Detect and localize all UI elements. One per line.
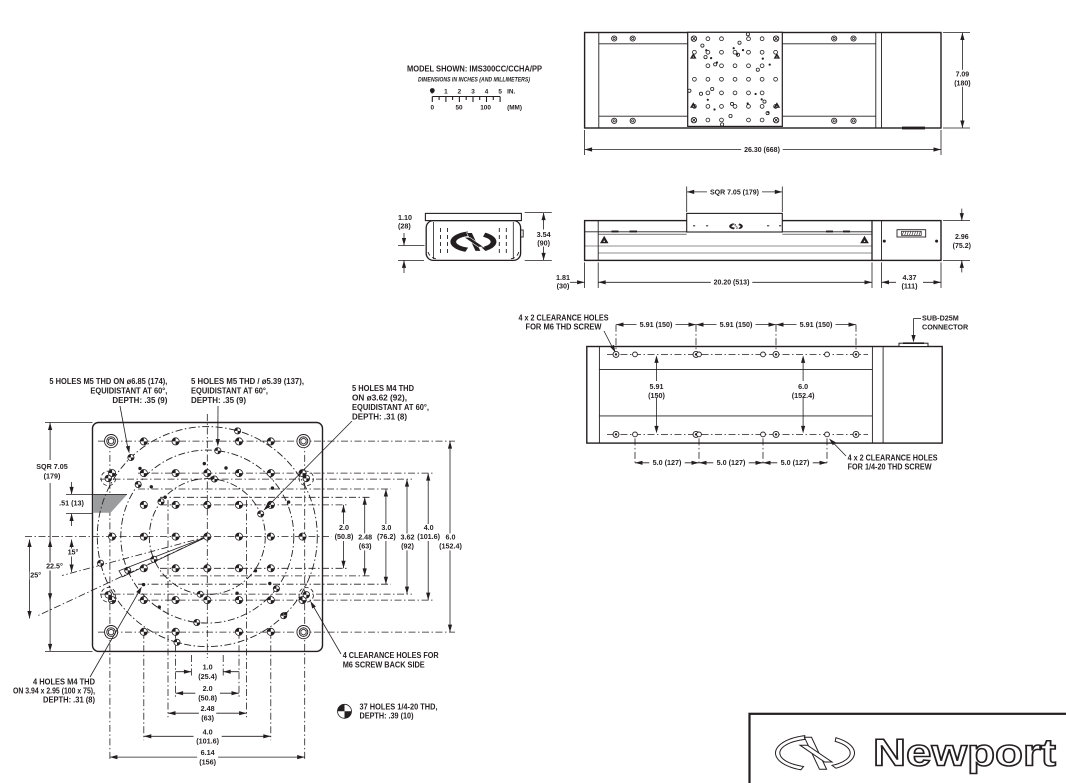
svg-text:(92): (92) [401, 542, 414, 551]
svg-text:15°: 15° [68, 548, 79, 557]
svg-text:2.0: 2.0 [203, 684, 213, 693]
svg-text:4 HOLES M4 THD: 4 HOLES M4 THD [33, 678, 95, 687]
svg-text:FOR 1/4-20 THD SCREW: FOR 1/4-20 THD SCREW [848, 462, 933, 471]
svg-text:(MM): (MM) [507, 105, 522, 112]
svg-text:2.48: 2.48 [201, 704, 215, 713]
svg-text:(50.8): (50.8) [198, 693, 217, 702]
svg-text:5.91 (150): 5.91 (150) [720, 320, 753, 329]
svg-text:(150): (150) [648, 391, 665, 400]
svg-text:6.0: 6.0 [446, 532, 456, 541]
svg-text:(179): (179) [44, 471, 61, 480]
svg-text:4.0: 4.0 [424, 523, 434, 532]
svg-text:SQR 7.05 (179): SQR 7.05 (179) [710, 189, 759, 196]
svg-text:5.91: 5.91 [650, 382, 664, 391]
svg-text:(25.4): (25.4) [198, 672, 217, 681]
svg-text:(63): (63) [359, 542, 372, 551]
svg-text:(30): (30) [557, 281, 570, 290]
svg-text:SUB-D25M: SUB-D25M [922, 314, 959, 323]
svg-text:3.0: 3.0 [381, 523, 391, 532]
svg-text:DIMENSIONS IN INCHES (AND MILL: DIMENSIONS IN INCHES (AND MILLIMETERS) [418, 77, 530, 84]
svg-text:2.96: 2.96 [955, 234, 969, 241]
svg-text:(90): (90) [537, 238, 550, 247]
svg-text:4 CLEARANCE HOLES FOR: 4 CLEARANCE HOLES FOR [343, 651, 439, 660]
svg-text:4 x 2 CLEARANCE HOLES: 4 x 2 CLEARANCE HOLES [519, 314, 609, 323]
svg-text:6.0: 6.0 [798, 382, 808, 391]
svg-text:M6 SCREW BACK SIDE: M6 SCREW BACK SIDE [343, 661, 425, 670]
svg-text:20.20 (513): 20.20 (513) [714, 280, 750, 287]
svg-text:7.09: 7.09 [956, 72, 970, 79]
svg-text:ON ø3.62 (92),: ON ø3.62 (92), [352, 394, 407, 403]
svg-text:1.0: 1.0 [203, 663, 213, 672]
svg-text:(156): (156) [199, 757, 216, 766]
svg-text:4.0: 4.0 [203, 727, 213, 736]
svg-text:(152.4): (152.4) [439, 542, 462, 551]
svg-text:(152.4): (152.4) [792, 391, 815, 400]
svg-text:22.5°: 22.5° [46, 562, 63, 571]
svg-text:5 HOLES M5 THD ON ø6.85 (174),: 5 HOLES M5 THD ON ø6.85 (174), [49, 377, 167, 386]
svg-text:5 HOLES M5 THD / ø5.39 (137),: 5 HOLES M5 THD / ø5.39 (137), [191, 377, 304, 386]
svg-text:(111): (111) [902, 282, 919, 291]
svg-text:5: 5 [498, 89, 502, 96]
svg-text:2: 2 [458, 89, 462, 96]
svg-text:(101.6): (101.6) [417, 532, 440, 541]
svg-text:5.91 (150): 5.91 (150) [640, 320, 673, 329]
svg-text:3.62: 3.62 [401, 532, 415, 541]
svg-text:IN.: IN. [507, 89, 515, 96]
svg-text:6.14: 6.14 [201, 748, 215, 757]
svg-text:(63): (63) [201, 713, 214, 722]
svg-text:(180): (180) [954, 81, 970, 88]
svg-text:(76.2): (76.2) [377, 532, 396, 541]
svg-text:EQUIDISTANT AT 60°,: EQUIDISTANT AT 60°, [352, 403, 429, 412]
svg-text:FOR M6 THD SCREW: FOR M6 THD SCREW [526, 323, 603, 332]
svg-text:(75.2): (75.2) [953, 243, 971, 250]
svg-text:5.0 (127): 5.0 (127) [781, 458, 810, 467]
svg-text:37 HOLES 1/4-20 THD,: 37 HOLES 1/4-20 THD, [360, 703, 438, 712]
svg-text:5.0 (127): 5.0 (127) [653, 458, 682, 467]
svg-text:ON 3.94 x 2.95 (100 x 75),: ON 3.94 x 2.95 (100 x 75), [13, 687, 95, 696]
svg-text:4: 4 [485, 89, 489, 96]
svg-text:2.48: 2.48 [358, 532, 372, 541]
svg-text:(101.6): (101.6) [196, 737, 219, 746]
svg-text:5.91 (150): 5.91 (150) [800, 320, 833, 329]
svg-text:4 x 2 CLEARANCE HOLES: 4 x 2 CLEARANCE HOLES [848, 453, 938, 462]
svg-text:26.30 (668): 26.30 (668) [744, 147, 780, 154]
svg-text:(50.8): (50.8) [335, 532, 354, 541]
svg-text:5.0 (127): 5.0 (127) [717, 458, 746, 467]
svg-text:(28): (28) [398, 221, 411, 230]
svg-text:EQUIDISTANT AT 60°,: EQUIDISTANT AT 60°, [90, 387, 167, 396]
svg-text:DEPTH: .31 (8): DEPTH: .31 (8) [352, 413, 407, 422]
svg-text:DEPTH: .39 (10): DEPTH: .39 (10) [360, 711, 414, 720]
svg-text:5 HOLES M4 THD: 5 HOLES M4 THD [352, 384, 414, 393]
svg-text:0: 0 [431, 105, 435, 112]
svg-text:2.0: 2.0 [339, 523, 349, 532]
svg-text:Newport: Newport [873, 733, 1056, 775]
svg-text:25°: 25° [30, 571, 41, 580]
svg-text:DEPTH: .35 (9): DEPTH: .35 (9) [191, 396, 246, 405]
svg-text:CONNECTOR: CONNECTOR [922, 323, 969, 332]
svg-text:.51 (13): .51 (13) [59, 498, 84, 507]
svg-text:SQR 7.05: SQR 7.05 [36, 462, 68, 471]
svg-text:EQUIDISTANT AT 60°,: EQUIDISTANT AT 60°, [191, 387, 268, 396]
svg-text:50: 50 [455, 105, 463, 112]
svg-text:DEPTH: .35 (9): DEPTH: .35 (9) [112, 396, 167, 405]
svg-text:DEPTH: .31 (8): DEPTH: .31 (8) [43, 696, 95, 705]
svg-text:3: 3 [471, 89, 475, 96]
svg-text:100: 100 [480, 105, 491, 112]
svg-text:MODEL SHOWN: IMS300CC/CCHA/PP: MODEL SHOWN: IMS300CC/CCHA/PP [407, 64, 542, 74]
svg-text:1: 1 [444, 89, 448, 96]
